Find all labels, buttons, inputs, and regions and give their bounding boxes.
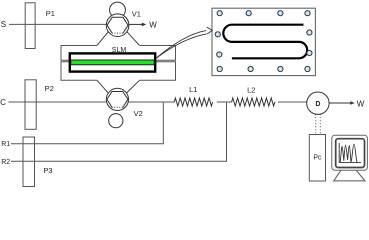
inset bolt hole left column: [215, 32, 220, 37]
valve V1 sample loop circle: [110, 2, 126, 18]
wire D to waste arrow: [329, 102, 351, 104]
valve V1 hexagon: [107, 17, 128, 33]
coil L2: [232, 98, 275, 106]
svg-text:W: W: [357, 99, 365, 108]
svg-text:L1: L1: [189, 85, 197, 94]
wire L1 to L2: [217, 101, 232, 103]
pump P3: [23, 137, 35, 187]
SLM bottom clamp plate: [61, 62, 176, 81]
valve V1 hexagon dotted port edge: [112, 32, 123, 34]
svg-text:S: S: [1, 20, 6, 29]
wire V2 to coil L1: [129, 101, 175, 103]
svg-text:Pc: Pc: [313, 155, 322, 162]
inset serpentine channel: [223, 25, 307, 59]
chromatogram peaks: [340, 144, 357, 162]
wire S to V1: [9, 23, 106, 25]
svg-text:V1: V1: [132, 10, 141, 19]
wire C to V2: [9, 101, 107, 103]
inset bolt hole right column: [307, 30, 312, 35]
wire junction down to R2 line: [226, 102, 228, 161]
monitor stand: [334, 170, 365, 181]
SLM membrane holder block: [70, 53, 155, 71]
wire SLM to V2 left tube: [97, 80, 108, 93]
svg-text:P3: P3: [43, 166, 52, 175]
SLM top clamp plate: [61, 46, 176, 61]
svg-text:P2: P2: [45, 84, 54, 93]
svg-text:R1: R1: [1, 141, 10, 148]
membrane green strip: [71, 60, 154, 65]
svg-text:D: D: [315, 101, 320, 108]
wire V1 to SLM right tube: [127, 32, 140, 46]
chromatogram axes: [339, 143, 361, 163]
inset membrane plate: [212, 8, 315, 75]
wire L2 to detector: [278, 101, 307, 103]
pump P1: [25, 3, 35, 49]
svg-text:SLM: SLM: [112, 47, 127, 54]
coil L1: [174, 98, 212, 106]
valve V2 hexagon dotted port edge: [112, 106, 123, 108]
valve V2 body circle: [106, 88, 128, 110]
wire junction down to R1 line: [162, 102, 164, 144]
pump P2: [25, 80, 36, 130]
annotation arrow membrane to inset: [156, 31, 206, 59]
inset bolt hole bottom row: [217, 66, 222, 71]
wire V1 to SLM left tube: [97, 32, 108, 46]
svg-text:V2: V2: [134, 109, 143, 118]
monitor screen: [336, 139, 365, 168]
wire V1 to waste arrow: [129, 23, 143, 25]
inset bolt hole top row: [217, 11, 222, 16]
svg-text:R2: R2: [1, 159, 10, 166]
svg-text:C: C: [0, 98, 6, 107]
valve V2 sample loop circle: [109, 114, 123, 128]
valve V1 body circle: [106, 14, 129, 37]
computer Pc box: [309, 135, 325, 182]
svg-text:P1: P1: [46, 9, 55, 18]
dotted signal link D to Pc: [315, 114, 317, 134]
monitor outer case: [332, 135, 368, 170]
wire SLM to V2 right tube: [127, 80, 140, 93]
svg-text:L2: L2: [247, 86, 255, 95]
detector D circle: [307, 92, 329, 114]
wire R1 to junction: [11, 143, 164, 145]
svg-text:W: W: [149, 21, 157, 30]
wire R2 to junction: [11, 160, 227, 162]
valve V2 hexagon: [107, 92, 128, 108]
